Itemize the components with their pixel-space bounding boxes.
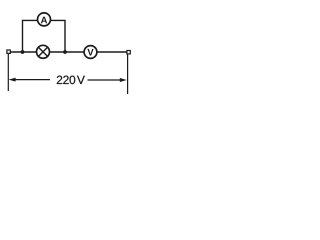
wire: voltmeter to right terminal	[97, 51, 127, 53]
right supply terminal	[127, 51, 130, 54]
left supply terminal	[7, 50, 10, 53]
dimension arrow right (points right)	[88, 78, 127, 82]
wire: main line, left terminal to lamp	[10, 51, 37, 53]
wire: parallel branch left leg and top-left segment	[23, 20, 38, 52]
lamp L1	[37, 45, 50, 58]
wire: lamp to right junction	[49, 51, 84, 53]
wire: left extension line down from terminal	[7, 54, 9, 91]
wire: top-right segment and right leg of parallel branch	[50, 20, 65, 52]
wire: right extension line down from terminal	[127, 54, 129, 94]
node: right junction dot	[63, 50, 67, 54]
ammeter A	[38, 13, 51, 26]
dimension arrow left (points left)	[9, 78, 50, 82]
node: left junction dot	[21, 50, 25, 54]
voltmeter V	[84, 46, 97, 59]
label 220V	[57, 76, 85, 85]
